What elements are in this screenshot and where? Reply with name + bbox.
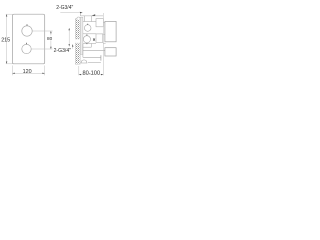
body below row2 (82, 44, 84, 57)
row2 thermostat circle (83, 36, 90, 43)
center leaders to 80 dim (32, 30, 52, 32)
row1 small knob square (96, 19, 103, 27)
wall section hatch (75, 19, 80, 64)
vertical dim ports (68, 28, 70, 46)
dim 80 (50, 31, 52, 49)
big handle rect (105, 21, 116, 41)
bottom knob circle (22, 44, 31, 53)
top port stub (84, 16, 86, 22)
bowtie symbol (93, 39, 95, 41)
pipe end bar (100, 55, 102, 60)
svg-text:2-G3/4": 2-G3/4" (56, 5, 73, 11)
svg-text:80: 80 (47, 36, 53, 41)
top outline (81, 15, 104, 17)
row2 small knob square (96, 34, 103, 43)
outlet pipe (83, 56, 101, 58)
svg-text:2-G3/4": 2-G3/4" (54, 48, 72, 54)
row2 stem (83, 33, 96, 35)
top port bump above wall (77, 17, 80, 20)
dim 80-100 (78, 66, 80, 75)
spout rect (105, 48, 116, 56)
spout arm line (83, 49, 105, 51)
row1 knob circle (84, 25, 91, 32)
trim plate edge band (80, 17, 83, 54)
ext line right (102, 13, 104, 75)
top knob circle (22, 26, 32, 36)
svg-text:120: 120 (23, 69, 32, 75)
svg-text:215: 215 (1, 38, 10, 44)
svg-text:80-100: 80-100 (83, 70, 101, 76)
plate (12, 14, 44, 64)
dim 215 (6, 14, 8, 64)
dim 120 (11, 66, 13, 76)
outlet elbow nut (81, 60, 87, 63)
